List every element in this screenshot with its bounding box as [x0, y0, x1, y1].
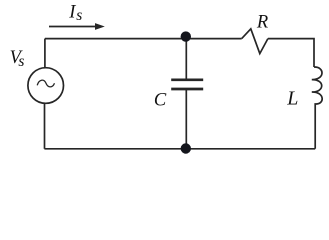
svg-text:I: I [68, 2, 76, 22]
svg-text:L: L [286, 88, 298, 110]
svg-text:s: s [76, 7, 82, 24]
svg-text:s: s [18, 53, 24, 70]
svg-text:R: R [256, 13, 268, 33]
svg-text:C: C [154, 91, 167, 111]
